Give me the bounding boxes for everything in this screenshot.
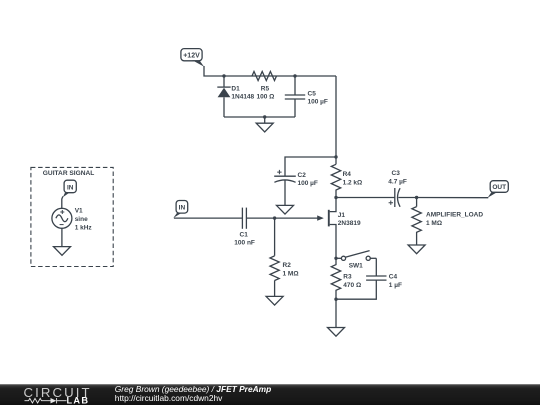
svg-text:C3: C3 bbox=[392, 170, 401, 177]
resistor R5 bbox=[252, 72, 277, 81]
node F (drain/C3) bbox=[334, 196, 337, 199]
svg-text:IN: IN bbox=[179, 204, 186, 211]
wire drain node to C3 bbox=[336, 197, 395, 199]
svg-text:4.7 µF: 4.7 µF bbox=[388, 179, 407, 186]
capacitor C2 (polarized) bbox=[274, 170, 296, 206]
node C (ground junction) bbox=[263, 115, 266, 118]
ground (C2) bbox=[277, 205, 294, 214]
transistor J1 (JFET) bbox=[317, 198, 336, 259]
resistor R4 bbox=[331, 164, 340, 197]
svg-text:1.2 kΩ: 1.2 kΩ bbox=[343, 179, 363, 186]
svg-text:470 Ω: 470 Ω bbox=[343, 282, 361, 289]
diode D1 bbox=[217, 76, 230, 117]
svg-text:V1: V1 bbox=[75, 208, 83, 215]
svg-text:1 MΩ: 1 MΩ bbox=[283, 270, 299, 277]
svg-text:R2: R2 bbox=[283, 262, 292, 269]
logo resistor-diode symbol bbox=[25, 398, 67, 403]
capacitor C5 bbox=[285, 76, 305, 117]
flag +12V bbox=[181, 49, 204, 67]
node G (source/SW1/R3) bbox=[334, 257, 337, 260]
svg-text:R3: R3 bbox=[343, 274, 352, 281]
svg-text:2N3819: 2N3819 bbox=[338, 220, 361, 227]
svg-text:GUITAR SIGNAL: GUITAR SIGNAL bbox=[43, 170, 95, 177]
svg-text:1 kHz: 1 kHz bbox=[75, 224, 93, 231]
wire from +12V to rail bbox=[204, 66, 336, 76]
node H (R3/C4 bottom) bbox=[334, 298, 337, 301]
voltage source V1 bbox=[52, 208, 72, 228]
resistor AMPLIFIER_LOAD bbox=[412, 198, 421, 246]
wire to OUT flag bbox=[417, 197, 489, 199]
svg-text:100 µF: 100 µF bbox=[308, 99, 328, 106]
wire C1 to gate bbox=[246, 217, 322, 219]
wire SW1 to C4 bbox=[375, 258, 377, 276]
dashed guitar signal box bbox=[31, 167, 113, 266]
svg-text:D1: D1 bbox=[231, 85, 240, 92]
svg-text:http://circuitlab.com/cdwn2hv: http://circuitlab.com/cdwn2hv bbox=[115, 393, 223, 403]
svg-text:1 MΩ: 1 MΩ bbox=[426, 220, 442, 227]
flag IN (main) bbox=[173, 201, 187, 218]
svg-text:1 µF: 1 µF bbox=[389, 282, 402, 289]
ground (load) bbox=[408, 245, 425, 254]
ground (R2) bbox=[266, 296, 283, 305]
resistor R2 bbox=[270, 218, 279, 296]
node A (D1 top) bbox=[222, 74, 225, 77]
flag OUT bbox=[488, 181, 509, 198]
svg-text:R5: R5 bbox=[261, 85, 270, 92]
svg-text:LAB: LAB bbox=[67, 395, 90, 405]
ground (main) bbox=[328, 328, 345, 337]
flag IN (guitar) bbox=[63, 180, 76, 197]
wire D1 bottom to C5 bottom bbox=[224, 116, 295, 118]
svg-text:IN: IN bbox=[67, 184, 74, 191]
footer bar bbox=[0, 384, 540, 405]
wire V1 to ground bbox=[61, 228, 63, 246]
svg-text:SW1: SW1 bbox=[349, 263, 363, 270]
capacitor C4 bbox=[366, 276, 386, 280]
svg-text:C4: C4 bbox=[389, 274, 398, 281]
switch SW1 bbox=[336, 251, 376, 261]
wire C4 to R3 bottom bbox=[336, 280, 376, 299]
capacitor C1 bbox=[242, 208, 246, 229]
node I (C3/load/OUT) bbox=[415, 196, 418, 199]
wire node to C2 bbox=[285, 157, 336, 176]
svg-text:1N4148: 1N4148 bbox=[231, 94, 254, 101]
wire IN to C1 bbox=[174, 217, 243, 219]
svg-text:C5: C5 bbox=[308, 90, 317, 97]
ground (top rail) bbox=[256, 117, 273, 132]
wire right vertical rail down bbox=[335, 76, 337, 164]
svg-text:100 µF: 100 µF bbox=[298, 180, 318, 187]
capacitor C3 (polarized) bbox=[389, 188, 417, 207]
wire IN flag to V1 bbox=[62, 196, 63, 208]
svg-text:C2: C2 bbox=[298, 172, 307, 179]
svg-text:100 nF: 100 nF bbox=[234, 240, 255, 247]
node D (gate/R2) bbox=[273, 216, 276, 219]
svg-text:sine: sine bbox=[75, 216, 88, 223]
node B (C5 top) bbox=[293, 74, 296, 77]
svg-text:J1: J1 bbox=[338, 212, 346, 219]
svg-text:OUT: OUT bbox=[492, 184, 506, 191]
svg-text:100 Ω: 100 Ω bbox=[257, 94, 275, 101]
svg-text:+12V: +12V bbox=[183, 53, 200, 60]
wire to main ground bbox=[335, 299, 337, 327]
svg-text:R4: R4 bbox=[343, 171, 352, 178]
ground (guitar) bbox=[54, 247, 71, 256]
svg-text:C1: C1 bbox=[240, 231, 249, 238]
svg-text:AMPLIFIER_LOAD: AMPLIFIER_LOAD bbox=[426, 212, 483, 219]
resistor R3 bbox=[331, 258, 340, 299]
node E (C2/R4 junction) bbox=[334, 155, 337, 158]
